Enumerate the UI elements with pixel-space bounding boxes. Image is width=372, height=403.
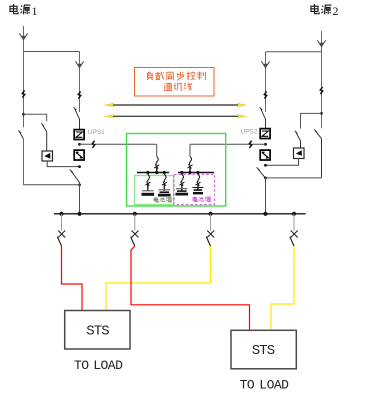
wire T1 to maintenance column xyxy=(24,114,47,121)
wire UPS2 battery feed xyxy=(190,143,266,145)
wire branch1 horizontal xyxy=(24,51,80,53)
wire bypass 1 xyxy=(24,184,80,186)
output bus bar xyxy=(54,213,306,215)
node UPS2 DC bus xyxy=(264,143,267,146)
label 电池组 magenta xyxy=(193,197,211,202)
feeder 4 breaker X xyxy=(290,231,298,247)
label 电池组 green xyxy=(154,197,172,202)
node bypass join 1 xyxy=(78,183,81,186)
source arrow 4 xyxy=(261,61,269,67)
switch above rectifier 2 xyxy=(260,107,266,129)
feeder 1 breaker X xyxy=(57,231,65,247)
switch below inverter 2 xyxy=(257,167,266,178)
switch above rectifier 1 xyxy=(74,107,80,129)
svg-text:TO: TO xyxy=(74,358,89,373)
label 电源1 xyxy=(10,4,31,14)
switch below inverter 1 xyxy=(70,170,80,183)
switch on maintenance column 2 xyxy=(295,131,301,148)
svg-text:LOAD: LOAD xyxy=(259,378,289,393)
node inverter1 out xyxy=(78,165,81,168)
switch on source1 vertical xyxy=(18,130,23,139)
wire feed2 down xyxy=(189,144,191,156)
svg-text:2: 2 xyxy=(333,4,339,18)
comm arrow 2 left xyxy=(104,114,115,118)
wire T2 to maintenance column 2 xyxy=(301,113,322,128)
maintenance bypass box Q2 xyxy=(294,148,305,159)
maintenance bypass box Q1 xyxy=(42,151,53,161)
switch on maintenance column 1 xyxy=(41,123,46,151)
switch on source2 vertical xyxy=(314,129,321,178)
wire box1 to inverter output xyxy=(47,161,79,167)
battery B1a xyxy=(142,191,155,195)
svg-text:UPS1: UPS1 xyxy=(88,129,105,136)
wire UPS1 output to bus xyxy=(79,182,81,214)
source arrow 2 xyxy=(75,61,83,67)
battery string 2b switch xyxy=(196,173,201,191)
battery group 2 box (dashed) xyxy=(174,175,215,205)
switch feed2 xyxy=(188,157,193,173)
breaker bolt on UPS1 input xyxy=(78,91,80,98)
STS2 box xyxy=(231,330,296,369)
breaker bolt on UPS2 input xyxy=(264,91,266,98)
source arrow 1 xyxy=(19,33,27,39)
wire bypass 2 xyxy=(266,177,322,179)
inverter U2b xyxy=(260,150,270,160)
rectifier U1a xyxy=(74,130,84,140)
svg-text:TO: TO xyxy=(240,378,255,393)
node battery bus 1 dots xyxy=(146,171,149,174)
battery string 1b switch xyxy=(162,173,167,191)
node battery bus 2 dots xyxy=(180,171,183,174)
STS1 box xyxy=(65,311,130,350)
wire box2 to inverter2 output xyxy=(266,159,299,166)
wire feed1 down xyxy=(156,144,158,156)
svg-text:STS: STS xyxy=(252,343,275,359)
wire source1 main vertical xyxy=(23,26,25,127)
battery bus 2 xyxy=(178,172,214,174)
wire UPS1 input vertical xyxy=(79,52,81,113)
svg-text:1: 1 xyxy=(32,4,38,18)
battery group 1 box xyxy=(135,176,174,205)
switch feed1 xyxy=(154,157,159,173)
comm wire 2 xyxy=(112,115,239,117)
comm arrow 1 right xyxy=(237,103,248,107)
battery string 1a switch xyxy=(145,173,150,191)
wire UPS1 battery feed xyxy=(80,143,157,145)
battery B2b xyxy=(192,188,203,194)
feeder 1 stub xyxy=(61,214,63,231)
red wire feeder2 to STS2 xyxy=(131,246,250,330)
wire branch2 horizontal xyxy=(266,51,322,53)
node T2 xyxy=(320,112,323,115)
battery cabinet outline xyxy=(127,134,226,207)
svg-text:STS: STS xyxy=(86,323,109,339)
node bus dots xyxy=(59,212,63,216)
wire source2 main vertical xyxy=(321,31,323,113)
rectifier U2a xyxy=(260,129,270,139)
breaker bolt on battery feed 2 xyxy=(249,141,251,148)
feeder 3 stub xyxy=(210,214,212,231)
wire UPS2 input vertical xyxy=(265,52,267,112)
source arrow 3 xyxy=(317,40,325,46)
breaker bolt on source1 xyxy=(22,90,24,97)
breaker bolt on source2 xyxy=(320,87,322,94)
node inverter2 out xyxy=(264,164,267,167)
node bypass join 2 xyxy=(264,177,267,180)
node UPS1 DC bus xyxy=(78,143,81,146)
sync control label box xyxy=(135,68,215,97)
battery bus 1 xyxy=(137,172,169,174)
battery B2a xyxy=(176,189,189,194)
battery string 2a switch xyxy=(179,173,184,191)
yellow wire feeder3 to STS1 xyxy=(106,246,211,311)
svg-text:UPS2: UPS2 xyxy=(241,129,258,136)
comm arrow 1 left xyxy=(104,103,115,107)
red wire feeder1 to STS1 xyxy=(62,246,83,311)
sync control text line1 负载同步控制 xyxy=(147,72,205,81)
feeder 2 stub xyxy=(134,214,136,231)
feeder 2 breaker X xyxy=(131,231,139,247)
feeder 3 breaker X xyxy=(206,231,214,247)
label 电源2 xyxy=(311,4,332,14)
feeder 4 stub xyxy=(293,214,295,231)
node T1 xyxy=(22,113,25,116)
breaker bolt on battery feed 1 xyxy=(92,141,94,148)
svg-text:LOAD: LOAD xyxy=(93,358,123,373)
inverter U1b xyxy=(74,150,84,160)
comm wire 1 xyxy=(112,104,239,106)
comm arrow 2 right xyxy=(237,114,248,118)
yellow wire feeder4 to STS2 xyxy=(271,246,294,330)
battery B1b xyxy=(158,190,171,195)
wire UPS2 output to bus xyxy=(265,178,267,214)
sync control text line2 通讯线 xyxy=(164,83,192,91)
